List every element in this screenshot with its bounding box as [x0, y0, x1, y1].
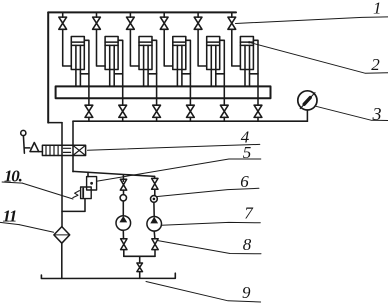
branch join pipe: [124, 255, 155, 257]
collector pipe: [73, 120, 307, 122]
feed pipe to pump branches: [73, 171, 155, 176]
tank drop pipe: [139, 256, 141, 263]
relief valve 10 drain: [62, 199, 85, 212]
pressure gauge 3: [298, 91, 317, 110]
valve 4 manual lever: [21, 130, 26, 135]
pump 7 left: [116, 216, 131, 231]
leader 7: [162, 222, 261, 225]
branch valve left: [120, 179, 126, 190]
leader 11: [19, 225, 54, 233]
svg-text:10.: 10.: [4, 167, 22, 186]
svg-text:1: 1: [373, 0, 382, 18]
lower valve right 8: [152, 239, 158, 250]
cylinder unit 6 with valves: [228, 12, 262, 121]
drain pipe through valve 4 to filter: [61, 123, 63, 227]
relief valve 10 feed stub: [87, 172, 89, 176]
cylinder unit 5 with valves: [194, 12, 228, 121]
top bus pipe: [48, 11, 236, 13]
pump branch left pipe: [122, 175, 124, 181]
svg-text:7: 7: [244, 203, 254, 222]
relief valve 10 spring: [73, 191, 80, 198]
svg-text:8: 8: [243, 235, 252, 254]
leader 5: [97, 159, 261, 181]
leader 9: [146, 282, 261, 303]
pump branch right pipe: [154, 176, 156, 178]
tank valve: [137, 263, 143, 272]
relief valve 10 lower body: [81, 187, 92, 199]
filter 11: [54, 227, 70, 244]
leader 4: [88, 144, 260, 150]
frame elbow to valve line: [48, 122, 62, 124]
leader 2: [249, 42, 388, 73]
leader 3: [316, 106, 388, 120]
branch valve right: [152, 178, 158, 189]
leader 6: [158, 188, 259, 196]
left frame pipe: [47, 12, 49, 122]
pressure pipe collector to feed: [72, 121, 74, 171]
cylinder unit 1 with valves: [59, 12, 93, 121]
pipe filter to tank: [61, 243, 63, 278]
pump 7 right: [147, 217, 162, 232]
tank 9: [41, 273, 175, 278]
svg-text:2: 2: [371, 55, 380, 74]
check indicator 6: [151, 196, 158, 203]
pressure gauge 3 stub: [306, 110, 308, 121]
cylinder unit 4 with valves: [160, 12, 194, 121]
leader 1: [236, 17, 388, 24]
leader 10: [22, 183, 73, 199]
relief valve 10 upper body: [87, 177, 97, 190]
svg-text:3: 3: [372, 104, 382, 124]
sight glass left: [120, 195, 126, 201]
svg-text:9: 9: [242, 283, 251, 302]
press beam bar: [56, 86, 271, 98]
svg-text:11: 11: [3, 206, 17, 225]
directional valve 4 body: [42, 145, 85, 155]
cylinder unit 2 with valves: [93, 12, 127, 121]
svg-text:5: 5: [243, 143, 252, 162]
cylinder unit 3 with valves: [127, 12, 161, 121]
svg-text:6: 6: [240, 172, 249, 191]
leader 8: [158, 241, 261, 254]
lower valve left: [121, 239, 127, 250]
